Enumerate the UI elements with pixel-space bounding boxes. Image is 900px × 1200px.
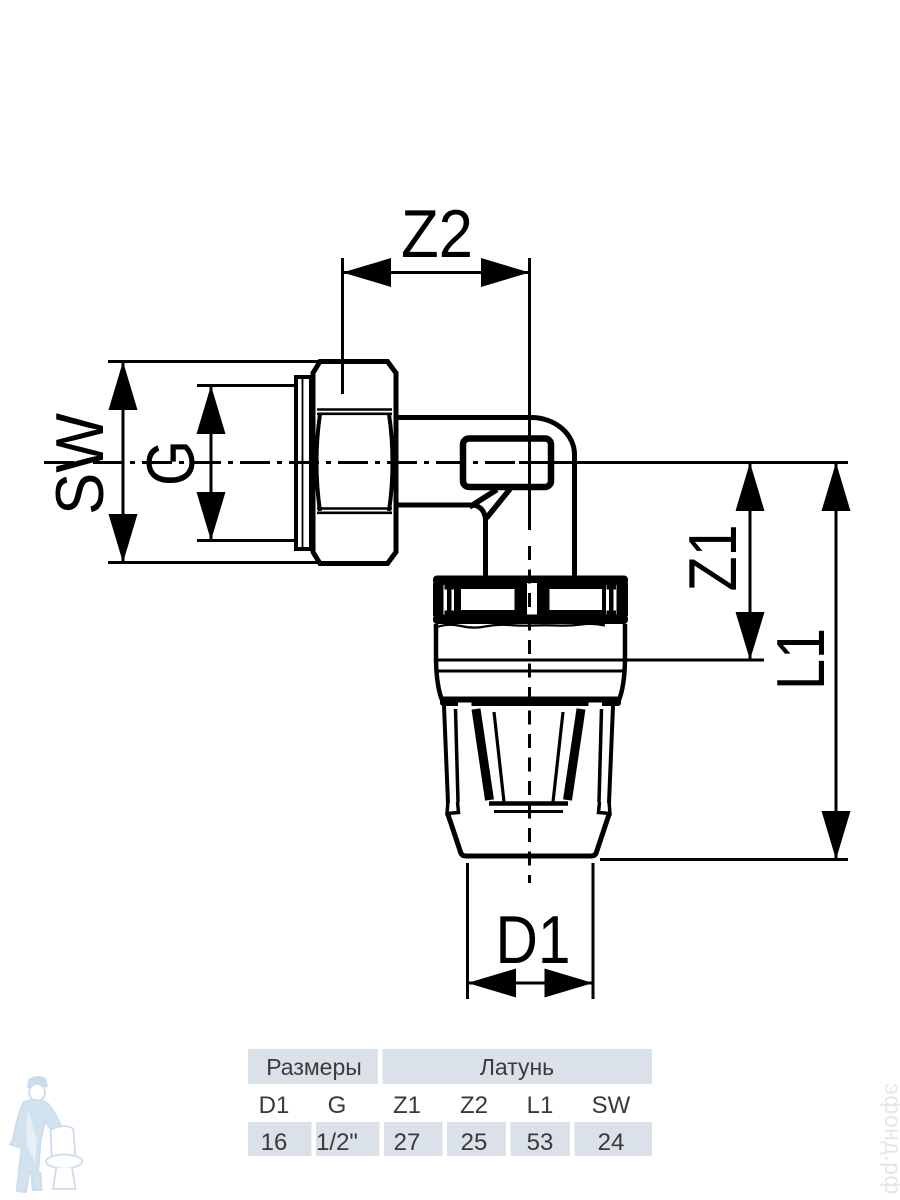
head white cutouts <box>444 583 617 616</box>
watermark plumber logo <box>10 1077 82 1192</box>
svg-text:25: 25 <box>461 1129 488 1156</box>
union nut hex body <box>313 362 396 564</box>
svg-text:SW: SW <box>42 413 118 515</box>
press sleeve head lower bar <box>433 615 628 625</box>
svg-text:SW: SW <box>592 1092 631 1119</box>
dimension Z1 <box>624 463 764 661</box>
svg-text:D1: D1 <box>259 1092 290 1119</box>
svg-text:Z2: Z2 <box>460 1092 488 1119</box>
dimension L1 <box>600 463 848 860</box>
centerline cross tick at elbow axis intersection <box>519 461 538 464</box>
union nut washer/flange <box>296 377 311 549</box>
svg-text:Размеры: Размеры <box>266 1054 362 1080</box>
vertical centerline solid upper (Z2 right extension) <box>528 258 531 530</box>
svg-text:16: 16 <box>261 1129 288 1156</box>
elbow horizontal tube <box>396 418 575 577</box>
sleeve upper cylinder <box>436 624 625 700</box>
svg-text:эфонд.рф: эфонд.рф <box>880 1083 900 1195</box>
svg-text:27: 27 <box>394 1129 421 1156</box>
dimension D1 <box>468 863 594 999</box>
tail cone <box>448 815 609 857</box>
svg-text:L1: L1 <box>527 1092 554 1119</box>
svg-text:1/2": 1/2" <box>316 1129 358 1156</box>
svg-text:Z2: Z2 <box>401 196 473 272</box>
dimension SW <box>108 362 322 563</box>
collet feet <box>447 801 610 814</box>
dimension G <box>197 386 294 541</box>
svg-text:24: 24 <box>598 1129 625 1156</box>
collet funnel walls <box>476 709 581 812</box>
svg-text:Z1: Z1 <box>393 1092 421 1119</box>
funnel top notches <box>458 703 602 708</box>
sleeve lower bar <box>440 697 621 707</box>
dimension Z2 <box>343 258 530 394</box>
crimp wavy line <box>437 624 605 628</box>
svg-text:L1: L1 <box>763 628 839 690</box>
head I-pins <box>445 585 617 616</box>
collet outer fingers <box>444 706 613 803</box>
press sleeve head top bar <box>433 576 628 586</box>
press sleeve head mid band <box>433 583 628 616</box>
svg-text:Латунь: Латунь <box>480 1054 554 1080</box>
data table <box>248 1049 652 1156</box>
cone transition lines <box>470 489 511 518</box>
svg-text:G: G <box>328 1092 347 1119</box>
svg-text:Z1: Z1 <box>675 525 751 592</box>
svg-text:D1: D1 <box>496 902 571 978</box>
horizontal centerline dash-dot <box>44 461 553 464</box>
pipe insert stop end <box>463 439 551 488</box>
svg-text:53: 53 <box>527 1129 554 1156</box>
svg-text:G: G <box>133 440 209 486</box>
vertical centerline dashed lower <box>528 546 531 883</box>
horizontal centerline extension solid <box>553 461 848 464</box>
